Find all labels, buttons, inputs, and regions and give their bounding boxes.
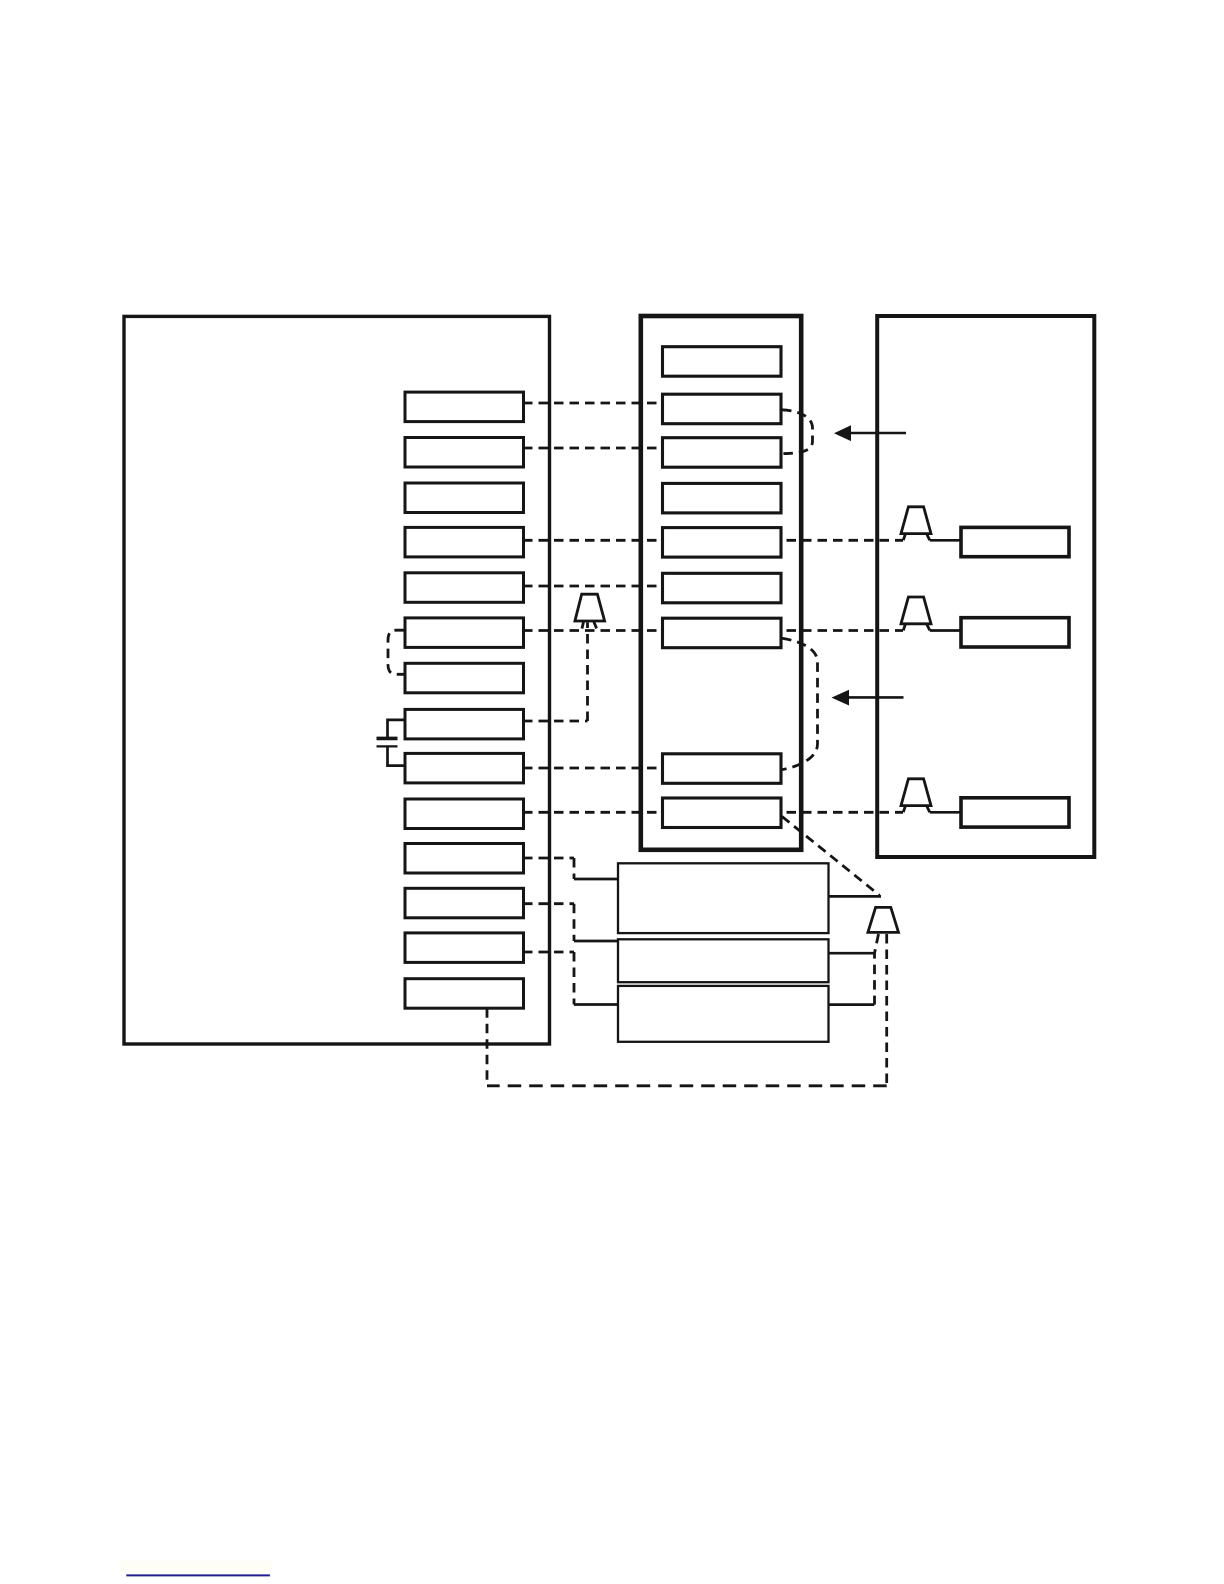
wire into B3 left bbox=[574, 1003, 618, 1006]
box R2 bbox=[961, 618, 1069, 647]
dashed drop left under phone P4 bbox=[875, 934, 879, 1005]
wire row9 L10 to M9 to phone P3 bbox=[523, 811, 903, 814]
box L9 bbox=[405, 753, 524, 783]
box M8 bbox=[663, 754, 782, 784]
wire L12 toward B2 bbox=[523, 904, 574, 941]
box M2 bbox=[663, 394, 782, 424]
box B1 bbox=[618, 863, 829, 933]
wire B2 right up to phone P4 bbox=[829, 952, 875, 955]
box M5 bbox=[663, 528, 782, 558]
wire B1 right to node bbox=[829, 895, 882, 898]
box L11 bbox=[405, 844, 524, 874]
arrow A1 bbox=[834, 425, 906, 441]
box M6 bbox=[663, 573, 782, 603]
box L12 bbox=[405, 888, 524, 918]
capacitor between L8 and L9 bbox=[377, 720, 406, 766]
box L5 bbox=[405, 573, 524, 603]
wire row8 L9 to M8 bbox=[523, 767, 662, 770]
dashed drop right under phone P4 bbox=[885, 934, 888, 1086]
box L10 bbox=[405, 799, 524, 829]
box L4 bbox=[405, 527, 524, 557]
box M7 bbox=[663, 618, 782, 648]
box M4 bbox=[663, 483, 782, 513]
hyperlink underline bbox=[126, 1574, 270, 1576]
left panel frame bbox=[124, 316, 550, 1044]
wire row7 L6 to M7 to phone P2 bbox=[523, 629, 903, 632]
box L13 bbox=[405, 933, 524, 963]
phone P2 bbox=[901, 597, 931, 630]
phone P4 (below right of bottom boxes) bbox=[868, 907, 899, 932]
box M9 bbox=[663, 798, 782, 828]
wire L13 toward B3 bbox=[523, 952, 574, 1005]
wire phone P3 to R3 bbox=[930, 811, 961, 814]
box L2 bbox=[405, 438, 524, 468]
wire phone P1 to R1 bbox=[930, 539, 961, 542]
box L14 bbox=[405, 979, 524, 1009]
box R1 bbox=[961, 527, 1069, 556]
phone P0 (between panels) bbox=[575, 594, 605, 628]
wire row5 L5 to M6 bbox=[523, 585, 662, 588]
dashed bottom return run bbox=[487, 1084, 887, 1087]
hyperlink highlight bbox=[119, 1561, 272, 1572]
box M3 bbox=[663, 438, 782, 468]
box L8 bbox=[405, 709, 524, 739]
dashed loop right of M7 M8 bbox=[782, 638, 818, 769]
wire into B2 left bbox=[574, 940, 618, 943]
arrow A2 bbox=[832, 690, 904, 706]
wire B3 right to node bbox=[829, 1003, 875, 1006]
box L1 bbox=[405, 392, 524, 422]
box M1 bbox=[663, 347, 782, 377]
dashed loop right of M2 M3 bbox=[782, 410, 813, 454]
phone P3 bbox=[901, 779, 931, 812]
box L6 bbox=[405, 618, 524, 648]
middle panel frame bbox=[641, 316, 801, 850]
wire phone P2 to R2 bbox=[930, 629, 961, 632]
dashed drop from L14 bbox=[486, 1008, 489, 1086]
wire L11 toward B1 bbox=[523, 858, 574, 879]
box L3 bbox=[405, 483, 524, 513]
dashed diagonal M9 to phone P4 bbox=[782, 817, 880, 896]
wire row4 L4 to M5 to phone P1 bbox=[523, 539, 903, 542]
wire row2 L2 to M3 bbox=[523, 447, 662, 450]
box L7 bbox=[405, 663, 524, 693]
wire into B1 left bbox=[574, 878, 618, 881]
right panel frame bbox=[877, 316, 1094, 857]
wire row1 L1 to M2 bbox=[523, 402, 662, 405]
box B3 bbox=[618, 986, 829, 1042]
dashed loop left of L6 L7 bbox=[388, 630, 404, 674]
box B2 bbox=[618, 939, 829, 982]
phone P1 bbox=[901, 507, 931, 540]
box R3 bbox=[961, 798, 1069, 827]
wire L8 to middle phone P0 bbox=[523, 623, 588, 722]
